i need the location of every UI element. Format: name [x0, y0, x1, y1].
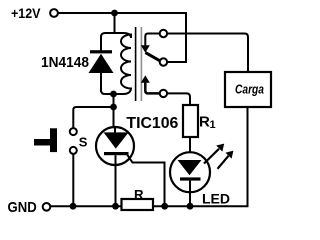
- relay armature: [145, 53, 160, 62]
- svg-text:+12V: +12V: [11, 5, 41, 21]
- junction top rail: [111, 10, 118, 17]
- wire junction to top node: [114, 13, 116, 33]
- LED arrow 1: [204, 144, 224, 164]
- resistor R: [122, 199, 154, 210]
- junction LED cathode: [187, 203, 194, 210]
- svg-text:1N4148: 1N4148: [41, 55, 89, 71]
- wire top node: [101, 33, 131, 38]
- wire bottom rail left: [50, 205, 121, 207]
- LED D2: [170, 152, 210, 206]
- diode D1 1N4148: [89, 36, 114, 92]
- wire contact A to Carga: [167, 34, 248, 73]
- wire Carga to rail: [153, 107, 248, 206]
- wire anode branch: [113, 94, 115, 127]
- wire top rail: [58, 13, 186, 62]
- wire bottom node: [101, 88, 131, 94]
- svg-text:S: S: [79, 135, 88, 150]
- label R1: [199, 114, 216, 132]
- svg-text:LED: LED: [202, 191, 230, 207]
- svg-text:GND: GND: [8, 199, 37, 216]
- resistor R1: [183, 105, 198, 152]
- svg-text:TIC106: TIC106: [126, 115, 178, 132]
- contact C: [160, 90, 167, 97]
- svg-text:1: 1: [210, 119, 216, 131]
- wire S top: [73, 107, 113, 128]
- wire S bottom: [72, 154, 74, 206]
- wire contact C to R1: [167, 93, 190, 105]
- terminal +12V: [50, 9, 58, 17]
- terminal GND: [43, 203, 51, 211]
- SCR Q1 TIC106: [96, 127, 134, 206]
- junction gate node: [161, 203, 168, 210]
- relay NO contact arrow: [141, 75, 160, 93]
- contact A: [160, 30, 167, 37]
- LED arrow 2: [218, 151, 234, 169]
- relay NC contact arrow: [141, 34, 160, 53]
- junction bottom node: [110, 91, 117, 98]
- svg-text:R: R: [134, 187, 144, 202]
- junction anode node: [110, 104, 117, 111]
- contact B common: [160, 58, 167, 65]
- pushbutton S: [34, 128, 77, 154]
- svg-text:Carga: Carga: [235, 82, 264, 96]
- svg-text:R: R: [199, 114, 210, 131]
- load box Carga: [225, 72, 271, 107]
- relay coil K1: [121, 35, 131, 90]
- junction S bottom: [70, 203, 77, 210]
- junction SCR cathode: [112, 203, 119, 210]
- wire SCR gate: [126, 153, 165, 206]
- relay core: [136, 27, 142, 101]
